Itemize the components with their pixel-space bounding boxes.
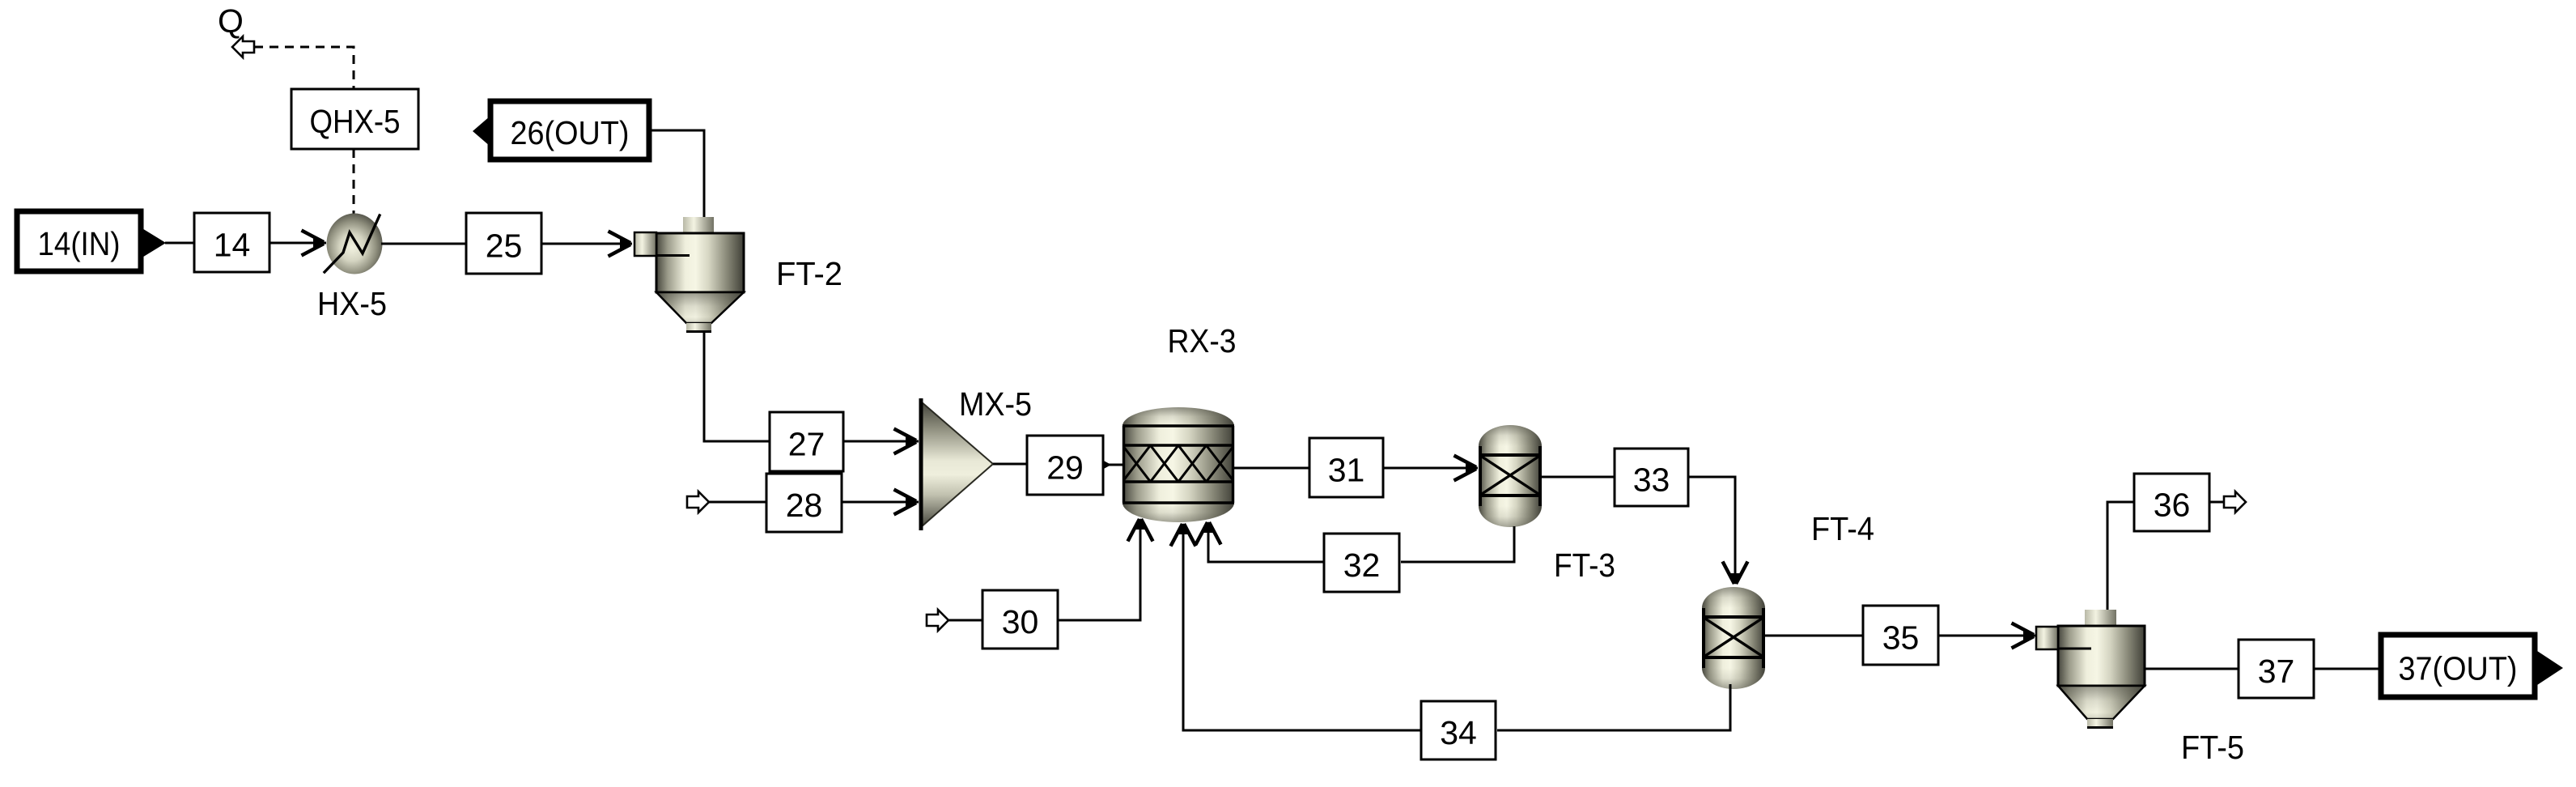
heat stream box QHX-5	[291, 89, 418, 149]
product arrow on 37(OUT)	[2535, 649, 2563, 687]
flash vessel FT-2 (cyclone)	[634, 217, 744, 332]
arrowhead 34 into RX-3	[1171, 523, 1196, 547]
svg-text:35: 35	[1882, 619, 1920, 657]
wire 14(IN) to box 14	[165, 242, 196, 245]
stream box 36	[2134, 474, 2209, 531]
svg-text:MX-5: MX-5	[959, 385, 1032, 423]
svg-text:QHX-5: QHX-5	[310, 103, 401, 140]
wire box 14 to HX-5	[269, 242, 326, 245]
wire FT-2 bottom to box 27	[704, 331, 771, 441]
feed stream box 14(IN)	[17, 211, 141, 271]
arrowhead 32 into RX-3	[1196, 521, 1221, 545]
stream box 33	[1615, 449, 1688, 506]
wire box 36 to sink	[2209, 501, 2224, 504]
feed arrow stream 30	[927, 610, 948, 631]
svg-text:14: 14	[214, 227, 251, 264]
svg-text:37(OUT): 37(OUT)	[2399, 650, 2518, 687]
heat exchanger HX-5	[325, 214, 383, 274]
arrowhead into FT-2	[609, 232, 632, 257]
arrowhead 28 into MX-5	[894, 490, 918, 515]
wire box 29 to RX-3	[1103, 464, 1123, 466]
wire box 27 to MX-5	[843, 440, 919, 443]
arrowhead into FT-4	[1723, 562, 1748, 585]
product arrow on 26(OUT)	[473, 116, 490, 147]
wire box 28 to MX-5	[842, 501, 919, 504]
wire FT-3 bottom to box 32	[1401, 526, 1514, 562]
svg-text:FT-4: FT-4	[1811, 510, 1874, 547]
wire MX-5 to box 29	[993, 463, 1029, 466]
stream box 35	[1863, 606, 1938, 665]
wire FT-5 to box 37	[2145, 668, 2240, 670]
stream box 32	[1324, 534, 1399, 592]
wire FT-4 bottom to box 34	[1497, 684, 1730, 730]
stream box 37	[2239, 640, 2314, 698]
wire box 34 to RX-3 bottom	[1183, 526, 1421, 730]
wire RX-3 to box 31	[1234, 467, 1311, 470]
arrowhead 30 into RX-3	[1128, 518, 1153, 542]
flash vessel FT-4	[1702, 587, 1765, 689]
svg-text:29: 29	[1046, 449, 1084, 487]
arrowhead into FT-5	[2012, 623, 2035, 649]
dashed heat stream wire Q to QHX-5	[254, 47, 354, 89]
svg-text:27: 27	[788, 426, 825, 463]
stream box 31	[1309, 438, 1383, 497]
svg-text:32: 32	[1343, 547, 1381, 584]
wire FT-2 top to 26(OUT)	[649, 130, 704, 218]
svg-text:33: 33	[1633, 462, 1670, 499]
stream box 29	[1027, 436, 1103, 495]
flash vessel FT-3	[1479, 425, 1542, 527]
wire box 33 to FT-4	[1688, 477, 1735, 584]
heat stream Q sink arrow	[232, 36, 254, 57]
stream box 27	[770, 412, 843, 471]
stream box 28	[766, 474, 842, 532]
stream box 30	[982, 590, 1058, 649]
stream box 34	[1421, 701, 1496, 759]
svg-text:34: 34	[1440, 714, 1477, 751]
svg-text:FT-5: FT-5	[2181, 729, 2244, 766]
svg-text:HX-5: HX-5	[317, 285, 387, 322]
wire feed to box 28	[709, 501, 768, 504]
mixer MX-5	[921, 398, 993, 530]
wire HX-5 to box 25	[381, 243, 468, 245]
svg-text:14(IN): 14(IN)	[38, 225, 121, 262]
wire box 35 to FT-5	[1938, 635, 2035, 637]
wire box 32 to RX-3 bottom	[1208, 525, 1324, 562]
svg-text:RX-3: RX-3	[1168, 322, 1237, 359]
svg-text:36: 36	[2154, 487, 2191, 524]
svg-text:26(OUT): 26(OUT)	[511, 114, 630, 151]
svg-text:FT-3: FT-3	[1554, 547, 1615, 584]
product stream box 37(OUT)	[2381, 635, 2535, 697]
svg-text:Q: Q	[218, 2, 244, 40]
feed arrow on 14(IN)	[141, 228, 166, 258]
wire box 30 to RX-3 bottom	[1058, 522, 1140, 620]
wire box 25 to FT-2	[541, 243, 632, 245]
wire FT-3 to box 33	[1542, 476, 1616, 479]
feed arrow stream 28	[687, 491, 709, 513]
wire FT-4 to box 35	[1765, 635, 1865, 637]
arrowhead into HX-5	[302, 231, 325, 256]
stream box 25	[466, 213, 541, 274]
wire feed to box 30	[948, 619, 984, 622]
flash vessel FT-5 (cyclone)	[2036, 610, 2145, 728]
svg-text:28: 28	[786, 487, 823, 524]
arrowhead into FT-3	[1454, 456, 1478, 481]
arrowhead 29 into RX-3	[1102, 460, 1111, 470]
svg-text:FT-2: FT-2	[776, 255, 842, 292]
product arrow stream 36	[2224, 491, 2246, 513]
wire box 31 to FT-3	[1383, 467, 1478, 470]
reactor RX-3	[1122, 407, 1234, 522]
svg-text:30: 30	[1002, 603, 1039, 640]
arrowhead 27 into MX-5	[894, 429, 918, 454]
product stream box 26(OUT)	[490, 101, 649, 160]
wire box 37 to 37(OUT)	[2314, 668, 2383, 670]
stream box 14	[194, 213, 269, 272]
svg-text:37: 37	[2258, 653, 2295, 690]
dashed heat stream wire QHX-5 to HX-5	[353, 149, 355, 215]
svg-text:31: 31	[1328, 452, 1365, 489]
svg-text:25: 25	[486, 228, 523, 265]
wire FT-5 top to box 36	[2107, 502, 2136, 610]
